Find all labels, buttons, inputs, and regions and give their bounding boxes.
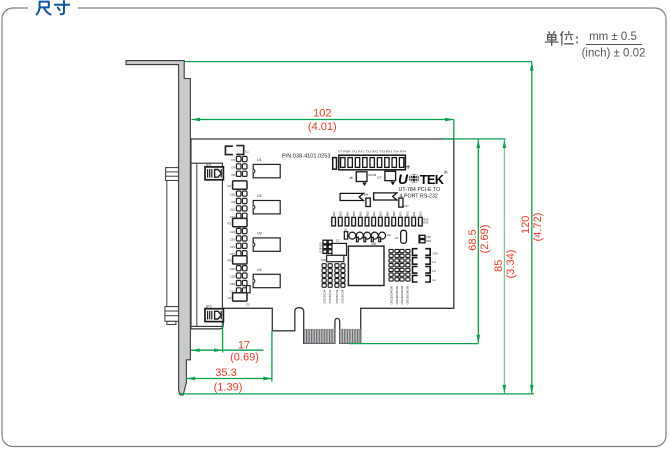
svg-text:R41: R41 — [345, 211, 349, 216]
svg-text:85: 85 — [493, 260, 505, 272]
svg-text:R6 R8: R6 R8 — [369, 173, 377, 177]
arrowheads — [192, 118, 201, 122]
svg-text:C60C62C64C66: C60C62C64C66 — [390, 286, 393, 305]
svg-text:C50C52C54: C50C52C54 — [323, 289, 326, 303]
extension line 35.3 — [271, 331, 273, 382]
svg-text:C60C62C64C66: C60C62C64C66 — [401, 286, 404, 305]
svg-text:4 PORT RS-232: 4 PORT RS-232 — [400, 194, 438, 200]
extension line bracket top — [184, 61, 532, 63]
extension line fingers bottom — [349, 343, 478, 345]
resistor array RN2 — [374, 193, 397, 200]
driver IC U2 — [253, 194, 280, 214]
svg-text:C55: C55 — [432, 251, 438, 255]
svg-text:u8: u8 — [349, 176, 353, 180]
filter C56/R23 — [419, 235, 425, 244]
svg-text:(2.69): (2.69) — [479, 225, 491, 254]
edge connector fingers group 1 — [305, 329, 335, 343]
D-sub shell side body — [167, 181, 179, 307]
svg-text:mm ± 0.5: mm ± 0.5 — [589, 31, 637, 43]
svg-text:G7 PWR TX1 RX1 TX2 RX2 TX3 RX3: G7 PWR TX1 RX1 TX2 RX2 TX3 RX3 TX4 RX4 — [338, 150, 406, 154]
svg-text:R2: R2 — [227, 221, 231, 225]
pad columns C50-C54 — [322, 264, 345, 288]
svg-text:C47: C47 — [404, 204, 410, 208]
svg-text:C10: C10 — [230, 193, 236, 197]
svg-text:17: 17 — [238, 339, 250, 351]
driver IC U3 — [253, 231, 280, 251]
svg-text:R71: R71 — [399, 211, 403, 216]
svg-text:(4.72): (4.72) — [532, 213, 544, 242]
extension line 17 — [222, 324, 224, 353]
dim line 102 — [192, 119, 454, 121]
svg-text:L2: L2 — [432, 278, 436, 282]
driver IC U4 — [253, 268, 280, 288]
svg-text:R52: R52 — [365, 211, 369, 216]
resistor packs R1-R4 in strip — [233, 181, 247, 301]
svg-text:R12: R12 — [419, 211, 423, 216]
dim line 17 — [191, 349, 264, 351]
svg-text:C20: C20 — [230, 267, 236, 271]
driver IC U1 — [253, 158, 280, 178]
pad column labels — [323, 289, 344, 303]
resistor pads R18/R19 — [323, 240, 332, 253]
svg-text:(4.01): (4.01) — [308, 121, 337, 133]
dim line 85 — [503, 140, 505, 394]
title 尺寸 (drawn as paths) — [37, 1, 70, 15]
svg-text:UT-784 PCI-E TO: UT-784 PCI-E TO — [399, 187, 441, 193]
svg-text:C2: C2 — [246, 303, 250, 307]
header pin P0 — [333, 158, 337, 170]
unit note 单位： (drawn as paths) — [545, 31, 573, 45]
svg-text:C56: C56 — [426, 235, 431, 239]
svg-text:R32: R32 — [339, 211, 343, 216]
crystal Y1 and diode row — [344, 232, 385, 242]
dim line 35.3 — [187, 378, 272, 380]
capacitor C2 — [246, 286, 250, 293]
capacitor U5 — [401, 230, 407, 243]
edge connector fingers group 2 — [340, 329, 361, 343]
svg-text:(inch) ± 0.02: (inch) ± 0.02 — [582, 48, 646, 60]
svg-text:EM: EM — [364, 193, 369, 197]
svg-text:102: 102 — [313, 108, 331, 120]
pad columns C60-C66 — [389, 249, 410, 281]
pad column labels right — [390, 286, 409, 305]
svg-text:R21: R21 — [372, 211, 376, 216]
capacitor C146 — [366, 198, 370, 206]
svg-text:(1.39): (1.39) — [214, 382, 243, 394]
svg-text:C18: C18 — [230, 275, 236, 279]
svg-text:(0.69): (0.69) — [230, 351, 259, 363]
svg-text:C5: C5 — [231, 158, 235, 162]
svg-text:U1: U1 — [257, 158, 262, 162]
svg-text:U4: U4 — [257, 268, 262, 272]
svg-text:R72: R72 — [405, 211, 409, 216]
resistor row R11-R74 — [332, 211, 429, 226]
svg-text:U0: U0 — [387, 233, 391, 237]
connector header brackets C1 — [225, 146, 243, 155]
svg-text:R61: R61 — [385, 211, 389, 216]
svg-text:U: U — [398, 172, 409, 187]
svg-text:C60C62C64C66: C60C62C64C66 — [396, 286, 399, 305]
D-sub shell bottom flange — [165, 307, 179, 325]
svg-text:R22: R22 — [379, 211, 383, 216]
svg-text:R11: R11 — [412, 211, 416, 216]
svg-text:R23: R23 — [426, 239, 431, 243]
PCB board outline — [191, 139, 454, 343]
svg-text:C12: C12 — [230, 215, 236, 219]
svg-text:C17: C17 — [230, 252, 236, 256]
inductors L2-L4, C55 — [413, 249, 431, 282]
strip reference labels — [227, 158, 235, 300]
svg-text:C15: C15 — [230, 237, 236, 241]
svg-text:C19: C19 — [230, 282, 236, 286]
svg-text:C20: C20 — [321, 258, 327, 262]
svg-text:R31: R31 — [332, 211, 336, 216]
extension line bottom — [179, 393, 535, 395]
svg-text:C50C52C54: C50C52C54 — [336, 289, 339, 303]
svg-text:TEK: TEK — [420, 172, 445, 187]
svg-text:U3: U3 — [257, 231, 262, 235]
svg-text:35.3: 35.3 — [215, 367, 236, 379]
svg-text:C4: C4 — [231, 165, 235, 169]
resistor array RN1 — [340, 193, 363, 200]
extension line board top — [443, 138, 506, 140]
DB37 connector CN1 body — [191, 163, 222, 326]
svg-text:L3: L3 — [432, 269, 436, 273]
svg-text:R42: R42 — [352, 211, 356, 216]
svg-text:C13: C13 — [230, 230, 236, 234]
svg-text:R3: R3 — [227, 259, 231, 263]
svg-text:P/N:038-4101.0253: P/N:038-4101.0253 — [282, 153, 331, 159]
svg-text:(3.34): (3.34) — [505, 250, 517, 279]
capacitor strip C3-C22 — [236, 156, 247, 293]
svg-text:u9: u9 — [395, 236, 399, 240]
svg-text:R30: R30 — [423, 221, 428, 225]
svg-text:®: ® — [444, 169, 448, 176]
D-sub shell top flange — [166, 168, 180, 181]
svg-text:C11: C11 — [230, 207, 235, 211]
capacitor C47 — [399, 198, 403, 207]
svg-text:68.5: 68.5 — [467, 229, 479, 250]
svg-text:120: 120 — [520, 216, 532, 234]
UOTEK logo — [398, 169, 448, 187]
svg-text:+: + — [406, 162, 411, 171]
svg-text:C14: C14 — [230, 245, 236, 249]
dim line 68.5 — [477, 140, 479, 344]
PCI bracket — [126, 61, 190, 395]
svg-text:R62: R62 — [392, 211, 396, 216]
svg-text:L6: L6 — [344, 228, 348, 232]
dim line 120 — [531, 62, 533, 394]
svg-text:u7: u7 — [378, 176, 382, 180]
svg-text:C21: C21 — [230, 289, 236, 293]
svg-text:C60C62C64C66: C60C62C64C66 — [407, 286, 410, 305]
svg-text:R18 R19: R18 R19 — [319, 242, 323, 253]
extension line 102 right — [453, 120, 455, 139]
svg-text:U2: U2 — [257, 194, 262, 198]
svg-text:C50C52C54: C50C52C54 — [329, 289, 332, 303]
svg-text:C1: C1 — [245, 150, 249, 154]
svg-text:U9: U9 — [227, 296, 231, 300]
svg-text:L1: L1 — [336, 239, 340, 243]
svg-text:L4: L4 — [432, 260, 436, 264]
svg-text:R1: R1 — [227, 184, 231, 188]
svg-text:C8: C8 — [231, 173, 235, 177]
svg-text:C50C52C54: C50C52C54 — [342, 289, 345, 303]
svg-text:R51: R51 — [359, 211, 363, 216]
svg-text:C9: C9 — [231, 200, 235, 204]
pin header J1 — [339, 155, 406, 170]
